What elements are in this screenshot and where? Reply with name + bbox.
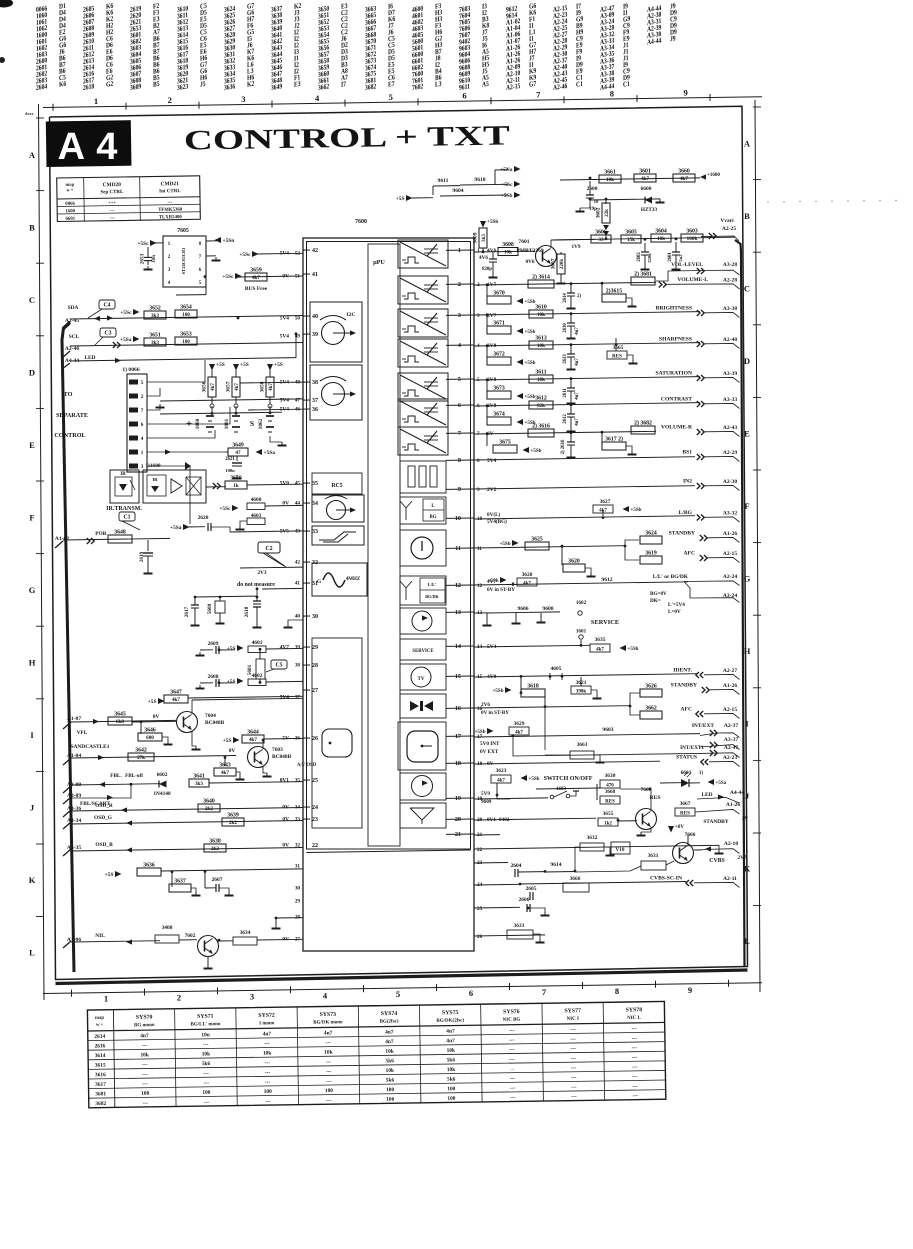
resistor 3644 4k7 xyxy=(223,730,303,745)
svg-text:STANDBY: STANDBY xyxy=(669,531,695,537)
svg-text:4u7: 4u7 xyxy=(575,327,580,335)
wire pin37 row xyxy=(160,399,303,401)
svg-text:3648: 3648 xyxy=(114,530,126,536)
svg-text:10k: 10k xyxy=(263,1050,271,1056)
svg-text:3607: 3607 xyxy=(551,258,557,269)
svg-text:---: --- xyxy=(203,1042,209,1048)
svg-text:3604: 3604 xyxy=(655,229,667,235)
svg-text:SYS71: SYS71 xyxy=(197,1014,214,1020)
svg-text:E: E xyxy=(744,429,750,439)
svg-text:27k: 27k xyxy=(137,755,145,761)
svg-text:BG=0V: BG=0V xyxy=(650,591,667,597)
svg-text:3: 3 xyxy=(241,94,245,104)
right bus rail xyxy=(735,240,745,966)
svg-text:3616: 3616 xyxy=(95,1072,106,1078)
svg-text:35: 35 xyxy=(312,481,318,487)
svg-text:9611: 9611 xyxy=(438,178,449,184)
svg-text:---: --- xyxy=(142,1043,148,1049)
svg-text:BG mono: BG mono xyxy=(134,1023,155,1028)
svg-text:3660: 3660 xyxy=(678,169,690,175)
svg-text:POR: POR xyxy=(95,531,106,537)
svg-text:---: --- xyxy=(203,1071,209,1077)
svg-text:3675: 3675 xyxy=(499,440,511,446)
svg-text:A3-37: A3-37 xyxy=(724,737,738,743)
resistor 3668 RES xyxy=(597,784,620,805)
svg-text:TV: TV xyxy=(418,677,425,682)
svg-text:SYS74: SYS74 xyxy=(381,1011,398,1017)
svg-text:3651: 3651 xyxy=(149,333,161,339)
scan mark corner xyxy=(0,0,13,8)
resistor 3619 xyxy=(640,556,662,564)
wire connector pin1 xyxy=(147,451,226,453)
svg-text:41: 41 xyxy=(312,272,318,278)
svg-text:IR: IR xyxy=(152,477,158,482)
svg-text:3609: 3609 xyxy=(130,83,141,92)
svg-text:A3-33: A3-33 xyxy=(723,397,737,403)
svg-text:3633: 3633 xyxy=(514,923,525,929)
svg-text:2607: 2607 xyxy=(212,877,223,883)
svg-text:VOL-LEVEL: VOL-LEVEL xyxy=(671,262,703,268)
svg-text:3613: 3613 xyxy=(535,336,547,342)
svg-text:3640: 3640 xyxy=(203,799,215,805)
transistor 7603 BC848B xyxy=(229,740,292,777)
node AFC A2-15 row16 xyxy=(700,711,703,717)
svg-text:9608: 9608 xyxy=(542,606,553,612)
svg-text:C1: C1 xyxy=(623,80,630,89)
svg-text:---: --- xyxy=(143,1100,149,1106)
svg-text:K6: K6 xyxy=(59,80,67,89)
IC block volume bars xyxy=(400,461,446,493)
svg-text:2614: 2614 xyxy=(94,1034,105,1040)
svg-text:0V in ST-BY: 0V in ST-BY xyxy=(481,710,509,716)
svg-text:---: --- xyxy=(265,1060,271,1066)
svg-text:C2: C2 xyxy=(265,546,272,552)
capacitor 2603 820p xyxy=(482,252,535,278)
arrow connector pin3 xyxy=(185,462,191,470)
capacitor 2602 220n xyxy=(637,243,652,270)
svg-text:A2-11: A2-11 xyxy=(723,876,737,882)
svg-text:IR: IR xyxy=(120,472,126,477)
row pin22 ground xyxy=(474,845,724,853)
svg-text:3632: 3632 xyxy=(587,835,598,841)
node OSD_R A3-36 xyxy=(63,803,303,817)
svg-text:+5Sa: +5Sa xyxy=(264,450,276,456)
svg-text:RC5: RC5 xyxy=(331,483,342,489)
svg-text:BRIGHTNESS: BRIGHTNESS xyxy=(656,306,692,312)
svg-text:Vvari: Vvari xyxy=(720,218,734,224)
svg-text:+++: +++ xyxy=(108,201,117,206)
svg-text:3612: 3612 xyxy=(535,396,547,402)
capacitor 2616 xyxy=(561,432,576,458)
wire connector pin3 xyxy=(147,466,190,524)
node CVBS A2-10 xyxy=(694,841,747,864)
svg-text:SERVICE: SERVICE xyxy=(412,649,433,654)
svg-text:SYS73: SYS73 xyxy=(320,1012,337,1018)
svg-text:A3-32: A3-32 xyxy=(723,511,737,517)
ground pin30 xyxy=(284,620,304,628)
resistor 4603 xyxy=(236,505,304,529)
svg-text:3661: 3661 xyxy=(604,170,616,176)
node BRIGHTNESS A3-38 xyxy=(697,310,700,316)
svg-text:---: --- xyxy=(510,1076,516,1082)
svg-text:7: 7 xyxy=(458,430,461,437)
wire collector chain xyxy=(551,237,735,240)
svg-text:---: --- xyxy=(571,1094,577,1100)
node VOLUME-L A2-28 xyxy=(659,282,662,288)
node SHARPNESS A2-40 xyxy=(697,341,700,347)
resistor 3636 xyxy=(105,863,303,879)
svg-text:2614: 2614 xyxy=(563,293,568,303)
svg-text:VFL: VFL xyxy=(77,730,88,736)
resistor 3635 4k7 xyxy=(590,637,639,653)
svg-text:5k6: 5k6 xyxy=(385,1058,394,1064)
wire xyxy=(412,197,433,199)
svg-text:map: map xyxy=(65,182,74,187)
svg-text:1603: 1603 xyxy=(556,787,567,792)
svg-text:3: 3 xyxy=(458,312,461,319)
svg-text:3636: 3636 xyxy=(224,83,236,92)
node SATURATION A3-39 xyxy=(697,375,700,381)
svg-text:3668: 3668 xyxy=(605,789,616,795)
row pin4 SHARPNESS xyxy=(474,336,700,350)
svg-text:A2-15: A2-15 xyxy=(723,707,737,713)
svg-text:1V9: 1V9 xyxy=(572,244,581,250)
svg-text:3628: 3628 xyxy=(522,572,533,578)
svg-text:40: 40 xyxy=(312,314,318,320)
resistor 3628 4k7 xyxy=(513,572,537,587)
supply arrow +5Sc top xyxy=(460,181,521,188)
svg-text:SYS72: SYS72 xyxy=(258,1013,275,1019)
svg-text:+5Sb: +5Sb xyxy=(525,300,536,305)
wire eeprom to SDA xyxy=(176,287,206,295)
svg-text:10k: 10k xyxy=(606,177,614,183)
battery 1060 xyxy=(186,416,214,432)
svg-text:SYS76: SYS76 xyxy=(503,1009,520,1015)
svg-text:3627: 3627 xyxy=(600,499,611,505)
svg-text:1): 1) xyxy=(699,771,703,776)
svg-text:+5Sb: +5Sb xyxy=(475,730,486,735)
resistor 3626 xyxy=(640,689,662,697)
capacitor 2607 xyxy=(172,872,234,896)
svg-text:NIC I: NIC I xyxy=(567,1017,579,1022)
svg-text:5V4: 5V4 xyxy=(280,398,290,404)
resistor 3624 xyxy=(640,536,662,544)
resistor 3663 xyxy=(545,693,605,763)
svg-text:+5Sb: +5Sb xyxy=(501,193,513,199)
svg-text:+5Sb: +5Sb xyxy=(529,777,540,782)
IC DAC block pin 6 xyxy=(398,399,448,427)
svg-text:2620: 2620 xyxy=(198,515,209,521)
svg-text:3665: 3665 xyxy=(613,345,624,351)
svg-text:3617: 3617 xyxy=(95,1082,106,1088)
svg-text:CONTROL: CONTROL xyxy=(54,432,85,439)
svg-text:1062: 1062 xyxy=(258,418,264,429)
resistor 3665 RES xyxy=(607,338,638,364)
svg-text:E7: E7 xyxy=(388,80,395,89)
row pin6 CONTRAST xyxy=(474,396,700,410)
IC 7605 ST24C02CB1 xyxy=(163,228,206,287)
row pin3 BRIGHTNESS xyxy=(474,305,700,319)
svg-text:3609: 3609 xyxy=(473,232,479,243)
svg-text:STANDBY: STANDBY xyxy=(703,819,728,825)
row pin13 service grounds xyxy=(474,606,560,626)
svg-text:9609: 9609 xyxy=(481,799,492,805)
IC pin stubs xyxy=(303,250,474,834)
svg-text:+5Sa: +5Sa xyxy=(716,781,727,786)
svg-text:STANDBY: STANDBY xyxy=(671,683,697,689)
svg-text:4u7: 4u7 xyxy=(575,418,580,426)
svg-text:3618: 3618 xyxy=(527,684,539,690)
row pin8 BS1 xyxy=(474,450,740,462)
svg-text:6: 6 xyxy=(462,91,466,101)
wire SCL xyxy=(70,342,303,348)
capacitor 2621 100u xyxy=(225,456,242,479)
svg-text:3614: 3614 xyxy=(95,1053,106,1059)
svg-text:2601: 2601 xyxy=(668,252,673,262)
svg-text:A1-26: A1-26 xyxy=(723,683,737,689)
svg-text:7606: 7606 xyxy=(685,832,696,838)
svg-text:INT/EXT1: INT/EXT1 xyxy=(680,745,704,751)
wire battery bus xyxy=(160,406,282,414)
svg-text:6600: 6600 xyxy=(641,186,652,192)
svg-text:E: E xyxy=(29,440,35,450)
wire pin28 ground xyxy=(272,918,304,929)
svg-text:0V(L): 0V(L) xyxy=(487,511,501,518)
wire split pin11 xyxy=(625,540,639,560)
svg-text:3647: 3647 xyxy=(170,690,182,696)
svg-text:4k7: 4k7 xyxy=(596,648,604,653)
svg-text:36: 36 xyxy=(312,407,318,413)
svg-text:10k: 10k xyxy=(537,312,545,318)
svg-text:AFC: AFC xyxy=(684,551,696,557)
svg-text:C1: C1 xyxy=(576,80,583,89)
svg-text:BG/DK mono: BG/DK mono xyxy=(313,1020,343,1025)
wire supply top xyxy=(560,178,700,180)
svg-text:2V: 2V xyxy=(742,816,749,822)
svg-text:3670: 3670 xyxy=(493,291,505,297)
label STANDBY 2V xyxy=(703,816,748,825)
svg-text:4: 4 xyxy=(141,436,144,442)
scan dots xyxy=(767,200,896,203)
svg-text:23: 23 xyxy=(312,817,318,823)
svg-text:---: --- xyxy=(264,1041,270,1047)
svg-text:5: 5 xyxy=(396,989,400,999)
node A2-09 FBL/SCART xyxy=(63,786,131,807)
svg-text:6: 6 xyxy=(458,402,461,409)
svg-text:3k3: 3k3 xyxy=(151,313,159,319)
svg-text:3k3: 3k3 xyxy=(195,781,203,787)
svg-text:---: --- xyxy=(142,1081,148,1087)
svg-text:BC848B: BC848B xyxy=(205,720,225,726)
resistor 3661 10k xyxy=(599,175,621,183)
svg-text:TO: TO xyxy=(64,391,73,398)
svg-text:---: --- xyxy=(204,1080,210,1086)
svg-text:A5: A5 xyxy=(482,80,489,89)
resistor 3658 4k7 xyxy=(260,362,283,408)
svg-text:SYS70: SYS70 xyxy=(136,1015,153,1021)
svg-text:2618: 2618 xyxy=(83,83,95,92)
svg-text:3662: 3662 xyxy=(645,706,657,712)
IC DAC block pin 4 xyxy=(398,339,448,367)
svg-text:2u2: 2u2 xyxy=(678,254,683,262)
coil 5601 xyxy=(247,650,265,683)
svg-text:---: --- xyxy=(265,1098,271,1104)
svg-text:2) 2616: 2) 2616 xyxy=(561,439,566,454)
svg-text:50: 50 xyxy=(295,316,301,322)
svg-text:SDA: SDA xyxy=(68,305,79,311)
svg-text:3656: 3656 xyxy=(202,381,208,392)
svg-text:82k: 82k xyxy=(537,403,545,409)
svg-text:10k: 10k xyxy=(140,1052,148,1058)
svg-text:IR.TRANSM.: IR.TRANSM. xyxy=(106,506,142,512)
row pin9 IN2 xyxy=(474,479,740,491)
row pin14 xyxy=(474,629,590,648)
svg-text:220k: 220k xyxy=(560,259,565,270)
svg-text:A: A xyxy=(29,150,36,160)
resistor 3637 xyxy=(169,872,201,896)
capacitor 2617 xyxy=(184,597,200,626)
svg-text:2606: 2606 xyxy=(519,897,530,903)
svg-text:4601: 4601 xyxy=(252,640,263,646)
svg-text:AFC: AFC xyxy=(681,707,693,713)
svg-text:5: 5 xyxy=(458,376,461,383)
svg-text:2611: 2611 xyxy=(563,388,568,398)
svg-text:3626: 3626 xyxy=(645,684,657,690)
svg-text:4k7: 4k7 xyxy=(269,383,274,391)
resistor 3643 4k7 xyxy=(214,758,245,780)
svg-text:10k: 10k xyxy=(386,1068,394,1074)
IR receiver 1600 xyxy=(143,462,206,503)
svg-text:2V7: 2V7 xyxy=(738,855,747,861)
svg-text:2608: 2608 xyxy=(208,674,219,680)
svg-text:22k: 22k xyxy=(605,209,610,217)
IC DAC block pin 1 xyxy=(398,240,448,268)
svg-text:3624: 3624 xyxy=(645,531,657,537)
svg-text:A2-47: A2-47 xyxy=(724,745,738,751)
svg-text:35: 35 xyxy=(295,778,301,784)
node SCL A2-46 xyxy=(62,334,80,358)
svg-text:---: --- xyxy=(325,1040,331,1046)
svg-text:+5S: +5S xyxy=(396,196,405,202)
svg-text:3630: 3630 xyxy=(605,773,616,779)
svg-text:4605: 4605 xyxy=(551,666,562,672)
resistor 3615 xyxy=(602,284,637,307)
resistor 3651 3k3 xyxy=(120,333,166,347)
svg-text:5V4: 5V4 xyxy=(487,458,497,464)
capacitor 2619 xyxy=(139,540,153,574)
ground connector xyxy=(147,404,165,410)
svg-text:820p: 820p xyxy=(482,267,492,272)
capacitor 2604 xyxy=(511,863,545,877)
transistor 7606 xyxy=(668,825,696,864)
resistor 4602 xyxy=(248,673,303,686)
svg-text:9: 9 xyxy=(683,87,687,97)
callout C4 xyxy=(99,300,115,309)
svg-text:BS1: BS1 xyxy=(682,450,692,456)
svg-text:9: 9 xyxy=(477,487,480,493)
resistor 3604 10k xyxy=(651,234,671,242)
IC block decoder xyxy=(310,365,362,420)
wire VFL xyxy=(71,720,176,722)
svg-text:26: 26 xyxy=(477,934,483,940)
svg-text:100: 100 xyxy=(141,1091,149,1097)
diode 6602 1N4148 xyxy=(153,772,171,797)
transistor 7602 xyxy=(185,933,219,969)
svg-text:---: --- xyxy=(632,1064,638,1070)
svg-text:SYS75: SYS75 xyxy=(442,1010,459,1016)
svg-text:SERVICE: SERVICE xyxy=(591,619,619,626)
svg-text:8: 8 xyxy=(458,457,461,464)
svg-text:IN2: IN2 xyxy=(683,479,692,485)
svg-text:3601: 3601 xyxy=(639,169,651,175)
svg-text:10n: 10n xyxy=(201,1032,209,1038)
svg-text:---: --- xyxy=(570,1036,576,1042)
svg-text:2604: 2604 xyxy=(511,863,522,869)
svg-text:6: 6 xyxy=(469,988,473,998)
svg-text:37: 37 xyxy=(312,398,318,404)
svg-text:C3: C3 xyxy=(104,331,111,337)
svg-text:I7: I7 xyxy=(341,80,347,89)
node NIL A1-06 xyxy=(63,933,160,948)
node LED A4-44 xyxy=(62,355,96,369)
IC block I2C interface xyxy=(310,302,362,362)
svg-text:2) 3614: 2) 3614 xyxy=(532,274,550,281)
resistor 3650 1k xyxy=(225,476,303,490)
IC block SERVICE xyxy=(400,639,446,660)
node A3-37 xyxy=(700,737,740,750)
svg-text:---: --- xyxy=(631,1026,637,1032)
resistor 3601 4k7 xyxy=(634,174,656,182)
row pin20 xyxy=(474,818,596,820)
svg-text:4: 4 xyxy=(458,342,461,349)
svg-text:G: G xyxy=(317,579,322,585)
svg-text:G7: G7 xyxy=(529,80,537,89)
svg-text:3671: 3671 xyxy=(493,321,505,327)
ground eeprom xyxy=(206,256,221,261)
svg-text:100: 100 xyxy=(264,1089,272,1095)
svg-text:---: --- xyxy=(570,1046,576,1052)
svg-text:15k: 15k xyxy=(627,237,635,243)
svg-text:+5Sc: +5Sc xyxy=(222,274,234,280)
resistor 3674 xyxy=(487,406,536,426)
node A3-24 xyxy=(684,582,740,603)
svg-text:+5Sc: +5Sc xyxy=(501,182,513,188)
svg-text:9612: 9612 xyxy=(601,577,612,583)
svg-text:1060: 1060 xyxy=(195,418,201,429)
svg-text:2653: 2653 xyxy=(140,253,146,264)
svg-text:A4-44: A4-44 xyxy=(730,790,744,796)
svg-text:TLXR5400: TLXR5400 xyxy=(159,215,183,220)
svg-text:SHARPNESS: SHARPNESS xyxy=(659,337,692,343)
svg-text:SWITCH ON/OFF: SWITCH ON/OFF xyxy=(544,776,593,782)
node OSD_B A3-35 xyxy=(63,842,303,856)
svg-text:4600: 4600 xyxy=(251,497,262,503)
svg-text:A2-10: A2-10 xyxy=(724,841,738,847)
svg-text:6k8: 6k8 xyxy=(116,719,124,725)
svg-text:w +: w + xyxy=(66,187,74,192)
svg-text:7: 7 xyxy=(141,408,144,414)
svg-text:3611: 3611 xyxy=(535,370,546,376)
capacitor 2618 xyxy=(244,597,262,628)
svg-text:100: 100 xyxy=(182,312,190,318)
svg-text:+5S: +5S xyxy=(148,699,157,705)
supply arrow +5Sc pin52 xyxy=(239,251,303,258)
IC block TV ident xyxy=(400,664,446,690)
svg-text:4MHZ: 4MHZ xyxy=(346,577,361,582)
resistor 3652 3k3 xyxy=(120,306,166,320)
svg-text:BG(2fsc): BG(2fsc) xyxy=(380,1019,399,1024)
svg-text:38: 38 xyxy=(295,663,301,669)
